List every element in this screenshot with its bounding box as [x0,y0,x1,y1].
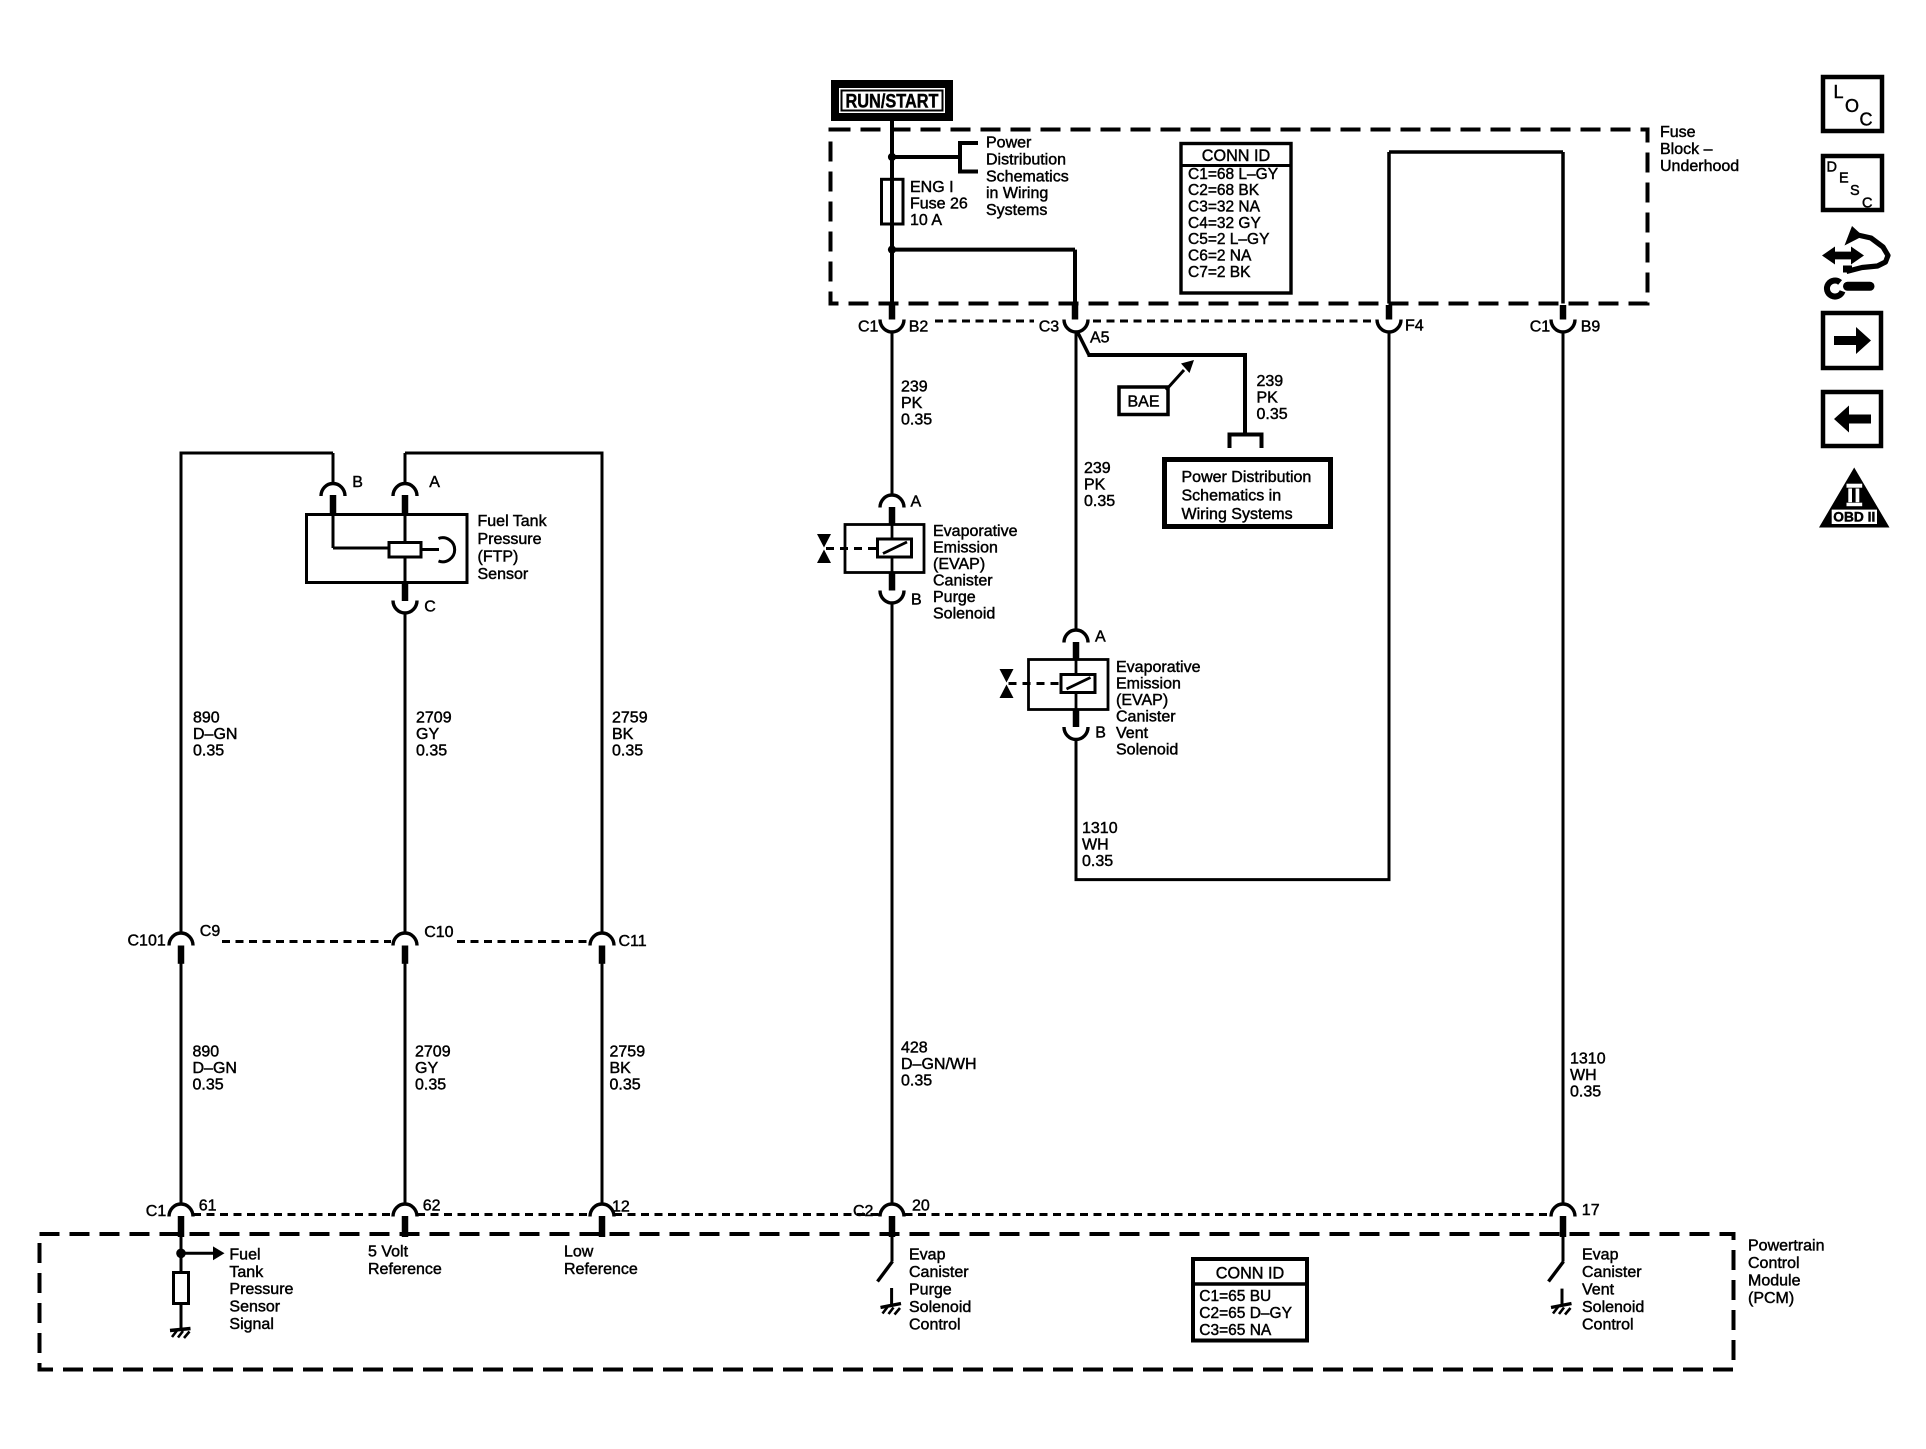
wire 2759 BK lower [601,963,604,1205]
fuse block - underhood dashed box [831,130,1648,304]
svg-text:B2: B2 [909,318,929,335]
svg-text:in Wiring: in Wiring [986,185,1048,202]
svg-text:Canister: Canister [1116,709,1176,726]
svg-text:0.35: 0.35 [901,411,932,428]
wire 2709 GY vertical [404,613,407,935]
inline connector C101 dotted line [222,940,391,943]
wire fuse block internal loop horizontal [1389,150,1563,154]
svg-text:L: L [1834,82,1844,102]
purge solenoid valve [817,534,831,563]
svg-text:0.35: 0.35 [1082,853,1113,870]
svg-text:12: 12 [612,1199,630,1216]
EVAP purge solenoid terminal A [880,495,904,508]
svg-text:C11: C11 [619,933,647,950]
svg-text:C101: C101 [128,933,166,950]
svg-text:C6=2 NA: C6=2 NA [1188,248,1252,265]
svg-text:D–GN/WH: D–GN/WH [901,1056,977,1073]
svg-text:Systems: Systems [986,202,1047,219]
junction below fuse [888,246,896,254]
connector C3 terminal A5 [1064,320,1088,333]
EVAP vent solenoid terminal A [1064,630,1088,643]
svg-text:Canister: Canister [1582,1264,1642,1281]
vent solenoid coil [1061,675,1095,693]
FTP signal arrow line [181,1252,213,1255]
connector pin stub C3 A5 [1072,305,1079,320]
svg-text:Evaporative: Evaporative [933,523,1018,540]
svg-text:Solenoid: Solenoid [1582,1299,1644,1316]
svg-text:10 A: 10 A [910,212,942,229]
powertrain control module (PCM) dashed box [40,1234,1734,1370]
svg-text:Tank: Tank [229,1264,264,1281]
svg-text:Control: Control [1748,1255,1800,1272]
junction above fuse [888,153,896,161]
svg-text:Pressure: Pressure [229,1281,293,1298]
svg-text:2759: 2759 [612,710,648,727]
icon LOC box [1823,77,1882,131]
svg-text:C: C [1860,110,1873,130]
svg-text:0.35: 0.35 [1084,493,1115,510]
svg-text:A: A [429,474,440,491]
svg-text:2709: 2709 [416,710,452,727]
FTP signal arrowhead [213,1246,225,1260]
CONN ID table (PCM) [1193,1259,1307,1341]
wire to FTP pin A [404,453,407,484]
svg-text:(EVAP): (EVAP) [933,556,985,573]
svg-text:BK: BK [612,726,634,743]
svg-text:D: D [1827,160,1837,176]
wire A5 branch horizontal [1088,353,1246,357]
icon schematic/wrench (double arrow, bent arrow, wrench) [1822,247,1864,265]
connector C1 terminal B9 [1551,320,1575,333]
svg-text:Fuel: Fuel [229,1246,260,1263]
svg-text:(EVAP): (EVAP) [1116,692,1168,709]
svg-text:RUN/START: RUN/START [846,92,939,113]
vent solenoid valve [1000,669,1014,698]
inline junction dotted line row 1 [935,320,1034,323]
svg-text:0.35: 0.35 [1257,406,1288,423]
wire branch to C3 A5 [892,248,1075,252]
svg-text:Power Distribution: Power Distribution [1182,469,1312,486]
svg-text:D–GN: D–GN [193,726,237,743]
connector C101 terminal C11 [590,933,614,946]
wire 1310 WH from vent B down [1075,739,1078,880]
svg-text:Reference: Reference [368,1261,442,1278]
svg-text:0.35: 0.35 [193,1076,224,1093]
wire 1310 WH horizontal [1075,878,1391,881]
svg-text:0.35: 0.35 [1570,1083,1601,1100]
wire 890 D-GN vertical [180,452,183,935]
note box Power Distribution Schematics in Wiring Systems [1165,460,1331,527]
wire FTP signal top horizontal [181,452,333,455]
svg-text:C3=65 NA: C3=65 NA [1199,1322,1272,1339]
svg-text:Schematics in: Schematics in [1182,488,1282,505]
connector C1 terminal B2 [880,320,904,333]
svg-text:0.35: 0.35 [901,1072,932,1089]
svg-text:CONN ID: CONN ID [1216,1264,1285,1283]
FTP wiper contact arc [439,538,455,562]
connector C101 terminal C9 [169,933,193,946]
svg-text:C1: C1 [1530,318,1551,335]
fuse ENG I Fuse 26 10 A [882,179,904,224]
svg-text:ENG I: ENG I [910,179,954,196]
svg-text:E: E [1839,171,1849,187]
EVAP canister vent solenoid body [1029,660,1109,710]
EVAP purge solenoid terminal B [880,591,904,604]
power feed tag RUN/START [831,80,953,121]
circuit reference box BAE [1119,387,1168,415]
svg-text:Control: Control [909,1316,961,1333]
FTP wiper link [421,548,439,551]
svg-text:239: 239 [1084,460,1111,477]
EVAP vent solenoid terminal B [1064,727,1088,740]
icon forward arrow box [1823,313,1881,368]
ground (PCM internal, pin 61) [170,1329,191,1331]
FTP sensing element [389,543,421,558]
svg-text:A5: A5 [1090,330,1110,347]
ground (PCM internal, pin 20) [890,1288,893,1306]
PCM vent driver lead [1562,1237,1565,1262]
svg-text:B: B [911,592,922,609]
wire 239 PK to purge solenooid A [891,332,894,497]
svg-text:1310: 1310 [1570,1051,1606,1068]
svg-text:62: 62 [423,1198,441,1215]
svg-text:Module: Module [1748,1273,1801,1290]
svg-text:Schematics: Schematics [986,168,1069,185]
svg-text:C10: C10 [424,924,453,941]
PCM purge driver switch [878,1261,893,1281]
svg-text:WH: WH [1570,1067,1597,1084]
svg-text:Canister: Canister [909,1264,969,1281]
svg-text:F4: F4 [1405,318,1424,335]
svg-text:C4=32 GY: C4=32 GY [1188,215,1261,232]
svg-text:CONN ID: CONN ID [1202,146,1271,165]
PCM pin 62 (C1) [393,1204,417,1217]
svg-text:Evap: Evap [909,1247,946,1264]
svg-text:Canister: Canister [933,573,993,590]
svg-text:C5=2 L–GY: C5=2 L–GY [1188,231,1269,248]
wire RUN/START feed down to fuse [890,119,894,251]
svg-text:5 Volt: 5 Volt [368,1243,409,1260]
FTP sensor terminal C [393,601,417,613]
off-page bracket to Power Distribution Schematics [960,143,978,172]
svg-text:0.35: 0.35 [612,742,643,759]
wire 890 D-GN lower [180,963,183,1205]
svg-text:C2=68 BK: C2=68 BK [1188,182,1260,199]
wire FTP 5V top horizontal [405,452,602,455]
svg-text:A: A [1095,629,1106,646]
wire 2709 GY lower [404,963,407,1205]
wire fuse block internal loop right (to B9) [1561,152,1565,304]
svg-text:Fuse: Fuse [1660,124,1696,141]
svg-text:239: 239 [1257,373,1284,390]
connector C101 terminal C10 [393,933,417,946]
connector terminal F4 [1377,320,1401,333]
off-page bracket above Power Distribution box [1230,435,1262,449]
svg-text:Evaporative: Evaporative [1116,659,1201,676]
wire fuse block internal loop left (to F4) [1387,152,1391,304]
svg-text:Solenoid: Solenoid [933,606,995,623]
svg-text:C: C [424,599,436,616]
svg-text:Powertrain: Powertrain [1748,1238,1824,1255]
connector pin stub C1 B9 [1560,305,1567,320]
svg-text:2709: 2709 [415,1044,451,1061]
PCM pin 12 (C1) [590,1204,614,1217]
wire 428 D-GN/WH to PCM 20 [891,603,894,1206]
svg-text:Distribution: Distribution [986,152,1066,169]
svg-text:61: 61 [199,1198,217,1215]
svg-text:Wiring Systems: Wiring Systems [1182,506,1293,523]
svg-text:C2: C2 [853,1203,874,1220]
svg-text:Fuel Tank: Fuel Tank [478,513,548,530]
svg-text:Reference: Reference [564,1261,638,1278]
svg-text:C1=65 BU: C1=65 BU [1199,1288,1271,1305]
svg-text:GY: GY [415,1060,438,1077]
svg-text:PK: PK [901,395,923,412]
svg-text:Purge: Purge [933,589,976,606]
PCM internal resistor [174,1273,189,1304]
PCM vent driver switch [1549,1262,1564,1282]
icon back arrow box [1823,392,1881,446]
svg-text:Vent: Vent [1582,1282,1615,1299]
svg-text:Control: Control [1582,1316,1634,1333]
PCM pin 17 [1551,1204,1575,1217]
svg-text:Underhood: Underhood [1660,158,1739,175]
svg-text:C3=32 NA: C3=32 NA [1188,199,1261,216]
svg-text:C9: C9 [200,923,221,940]
svg-text:Signal: Signal [229,1316,273,1333]
junction FTP signal [176,1249,186,1259]
svg-text:Evap: Evap [1582,1247,1619,1264]
svg-text:O: O [1845,96,1859,116]
svg-text:PK: PK [1257,390,1279,407]
svg-text:0.35: 0.35 [610,1076,641,1093]
wire 2759 BK vertical [601,452,604,935]
PCM pin 20 (C2) [880,1204,904,1217]
PCM pin dotted junction line [193,1213,393,1216]
svg-text:239: 239 [901,379,928,396]
svg-text:Solenoid: Solenoid [1116,742,1178,759]
svg-text:BK: BK [610,1060,632,1077]
purge solenoid coil [878,539,912,557]
svg-text:C3: C3 [1039,318,1060,335]
svg-text:S: S [1850,183,1860,199]
svg-text:0.35: 0.35 [415,1076,446,1093]
svg-text:Emission: Emission [1116,676,1181,693]
svg-text:0.35: 0.35 [416,742,447,759]
svg-text:Sensor: Sensor [478,566,529,583]
fuel tank pressure (FTP) sensor [307,515,468,583]
svg-text:2759: 2759 [610,1044,646,1061]
wire 1310 WH from B9 to PCM 17 [1562,332,1565,1206]
svg-text:Pressure: Pressure [478,531,542,548]
ground (PCM internal, pin 17) [1561,1289,1564,1306]
svg-text:D–GN: D–GN [193,1060,237,1077]
wire branch to power distribution reference [892,155,960,159]
svg-text:Purge: Purge [909,1282,952,1299]
svg-text:Sensor: Sensor [229,1299,280,1316]
svg-text:Fuse 26: Fuse 26 [910,196,968,213]
svg-text:C: C [1862,196,1872,212]
svg-text:B9: B9 [1581,318,1601,335]
svg-text:C1: C1 [146,1203,167,1220]
svg-text:1310: 1310 [1082,820,1118,837]
icon DESC box [1823,156,1882,210]
wire fuse output down to C1 B2 [890,224,894,304]
svg-text:Solenoid: Solenoid [909,1299,971,1316]
svg-text:Emission: Emission [933,540,998,557]
svg-text:C2=65 D–GY: C2=65 D–GY [1199,1305,1292,1322]
svg-text:C1=68 L–GY: C1=68 L–GY [1188,166,1278,183]
svg-text:Block –: Block – [1660,141,1713,158]
svg-text:OBD II: OBD II [1833,510,1875,525]
svg-text:BAE: BAE [1127,394,1159,411]
connector pin stub F4 [1386,305,1393,320]
BAE pointer arrow [1166,370,1184,390]
svg-text:WH: WH [1082,837,1109,854]
wire to FTP pin B [332,453,335,484]
wire 1310 WH up to F4 [1388,331,1391,880]
svg-text:20: 20 [912,1198,930,1215]
svg-text:C1: C1 [858,318,879,335]
PCM purge driver lead [891,1237,894,1261]
svg-text:Power: Power [986,135,1032,152]
svg-text:B: B [352,474,363,491]
svg-text:GY: GY [416,726,439,743]
svg-text:17: 17 [1582,1202,1600,1219]
FTP sensor terminal A [393,484,417,497]
svg-text:A: A [911,494,922,511]
icon OBD II triangle [1819,468,1890,528]
FTP sensor terminal B [321,484,345,497]
wire 239 PK to vent solenoid A [1075,332,1078,632]
svg-text:0.35: 0.35 [193,742,224,759]
svg-text:(FTP): (FTP) [478,548,519,565]
wire down to C3 [1073,250,1077,304]
CONN ID table (fuse block underhood) [1181,144,1291,294]
EVAP canister purge solenoid body [845,525,924,573]
svg-text:(PCM): (PCM) [1748,1290,1794,1307]
svg-text:Vent: Vent [1116,725,1149,742]
svg-text:B: B [1095,725,1106,742]
connector pin stub C1 B2 [889,305,896,320]
PCM pin 61 (C1) [169,1204,193,1217]
wire 239 PK down to reference bracket [1243,353,1247,433]
svg-text:890: 890 [193,1044,220,1061]
svg-text:890: 890 [193,710,220,727]
svg-text:428: 428 [901,1040,928,1057]
svg-text:Low: Low [564,1243,594,1260]
svg-text:C7=2 BK: C7=2 BK [1188,264,1251,281]
wire A5 diagonal branch [1078,333,1089,355]
svg-text:PK: PK [1084,477,1106,494]
